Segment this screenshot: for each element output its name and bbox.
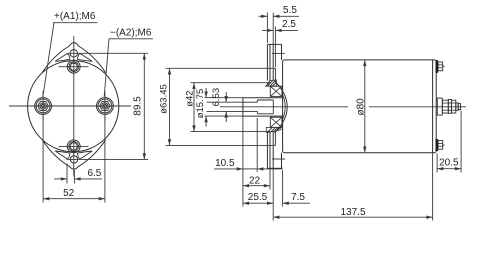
bottom ear side view	[281, 153, 283, 169]
side view horizontal centerline	[220, 106, 348, 108]
top stud tip	[443, 65, 445, 67]
dim 25.5 line	[243, 202, 273, 204]
dim 6.5 extension lines	[66, 164, 68, 184]
upper bearing block with cross hatch	[270, 86, 282, 96]
dim 6.53 line	[225, 92, 227, 102]
bottom stud tip	[443, 144, 445, 146]
dim 7.5 line	[283, 202, 310, 204]
top terminal hole	[67, 60, 80, 73]
upper seal wedge (hatched)	[266, 80, 277, 86]
svg-text:6.5: 6.5	[87, 168, 101, 179]
solenoid body outline	[283, 60, 437, 153]
svg-text:ø15.75: ø15.75	[195, 89, 206, 119]
center terminal stud shaft lines	[436, 99, 437, 101]
dim ø63.45 line	[169, 68, 171, 145]
flange plate top edge	[267, 43, 281, 45]
dim ø15.75 line	[205, 88, 207, 98]
svg-text:5.5: 5.5	[283, 5, 297, 16]
bottom stud washer	[436, 139, 439, 151]
bottom mounting hole crosshair	[67, 158, 81, 160]
svg-text:6.53: 6.53	[211, 88, 222, 107]
svg-text:ø63.45: ø63.45	[158, 84, 169, 114]
top stud threaded body	[438, 62, 443, 71]
dim 6.53 extension lines	[207, 101, 243, 103]
dim ø42 extension lines	[191, 82, 271, 84]
bottom terminal crosshair	[59, 145, 89, 147]
horizontal centerline of front view	[9, 105, 131, 107]
fork slot narrow part	[243, 101, 258, 103]
hub dome outer curve	[275, 81, 288, 133]
right bolt vertical centerline	[104, 91, 106, 122]
center stud base washer	[437, 98, 442, 115]
svg-text:10.5: 10.5	[215, 158, 235, 169]
dim 20.5 ext lines	[436, 154, 438, 173]
center stud section 2	[451, 100, 455, 113]
fork slot step	[256, 100, 258, 102]
svg-text:+(A1);M6: +(A1);M6	[54, 11, 96, 22]
flange plate edge line	[269, 44, 271, 80]
label -(A2);M6 underline and leader	[109, 38, 154, 40]
svg-text:89.5: 89.5	[133, 96, 144, 116]
label +(A1);M6 underline and leader	[53, 22, 98, 24]
svg-text:−(A2);M6: −(A2);M6	[110, 27, 152, 38]
top mounting hole	[70, 50, 77, 57]
front view bottom mounting ear (pointed arch)	[42, 140, 106, 170]
dim 137.5 line	[273, 216, 432, 218]
bottom mounting hole	[70, 156, 77, 163]
plunger rod	[243, 97, 283, 99]
center stud section 1	[442, 100, 448, 113]
front view main flange circle	[28, 61, 119, 152]
bottom ear left slot cutout	[55, 151, 70, 158]
lower seal wedge (hatched)	[266, 127, 281, 132]
dim 5.5/2.5 extension lines	[266, 13, 268, 44]
bottom stud threaded body	[438, 141, 443, 150]
dim 89.5 line	[143, 53, 145, 159]
svg-text:20.5: 20.5	[439, 157, 459, 168]
top ear side view	[281, 44, 283, 60]
flange plate front face	[266, 44, 268, 80]
dim 22 line	[243, 185, 270, 187]
dim 89.5 extension lines	[81, 52, 148, 54]
dim 10.5 ext line slot end	[256, 118, 258, 172]
hub dome inner curve	[282, 93, 286, 121]
left bolt hex	[38, 101, 49, 110]
dim 22 ext lines	[242, 116, 244, 206]
body end cap seam	[432, 60, 434, 153]
right bolt hex	[100, 101, 111, 110]
center stud step	[456, 103, 458, 110]
dim ø15.75 extension lines	[205, 97, 243, 99]
top mounting hole crosshair	[67, 52, 81, 54]
top ear right slot cutout	[77, 54, 92, 61]
lower bearing block with cross hatch	[270, 117, 282, 127]
flange plate bottom edge	[267, 167, 282, 169]
flange boss ring ø63.45	[274, 68, 276, 82]
flange plate back face	[272, 44, 274, 80]
center stud tip	[458, 104, 460, 110]
dim 52 extension lines	[42, 116, 44, 203]
dim ø80 line	[364, 60, 366, 153]
top stud washer	[436, 60, 439, 73]
dim 52 line	[43, 198, 105, 200]
dim 20.5 line	[437, 168, 461, 170]
front view top mounting ear (pointed arch)	[42, 43, 106, 73]
top terminal hex nut	[70, 63, 78, 70]
svg-text:ø42: ø42	[185, 90, 196, 106]
bottom terminal hole	[67, 140, 80, 153]
right bolt M6 terminal A2	[97, 98, 114, 115]
bottom terminal hex nut	[70, 143, 78, 150]
dim 5.5 line	[259, 15, 268, 17]
bottom ear right slot cutout	[77, 151, 92, 158]
center stud hex nut	[448, 100, 451, 114]
svg-text:25.5: 25.5	[248, 192, 268, 203]
fork slot wide part	[257, 99, 273, 101]
left bolt vertical centerline	[42, 91, 44, 122]
dim ø42 line	[193, 83, 195, 132]
svg-text:2.5: 2.5	[282, 19, 296, 30]
top terminal crosshair	[59, 66, 89, 68]
svg-text:7.5: 7.5	[291, 192, 305, 203]
dim 25.5/7.5 ext lines	[272, 168, 274, 220]
dim 6.5 line	[54, 178, 67, 180]
dim 2.5 line	[262, 29, 273, 31]
dim 10.5 line	[214, 168, 243, 170]
center stud thread ribs	[442, 102, 456, 104]
top ear left slot cutout	[55, 54, 70, 61]
left bolt M6 terminal A1	[35, 98, 52, 115]
dim ø63.45 extension lines	[166, 67, 273, 69]
svg-text:ø80: ø80	[355, 98, 366, 116]
dim 137.5 ext line right	[432, 153, 434, 221]
svg-text:137.5: 137.5	[340, 207, 365, 218]
svg-text:22: 22	[249, 175, 261, 186]
svg-text:52: 52	[63, 188, 75, 199]
vertical centerline of front view	[73, 36, 75, 177]
